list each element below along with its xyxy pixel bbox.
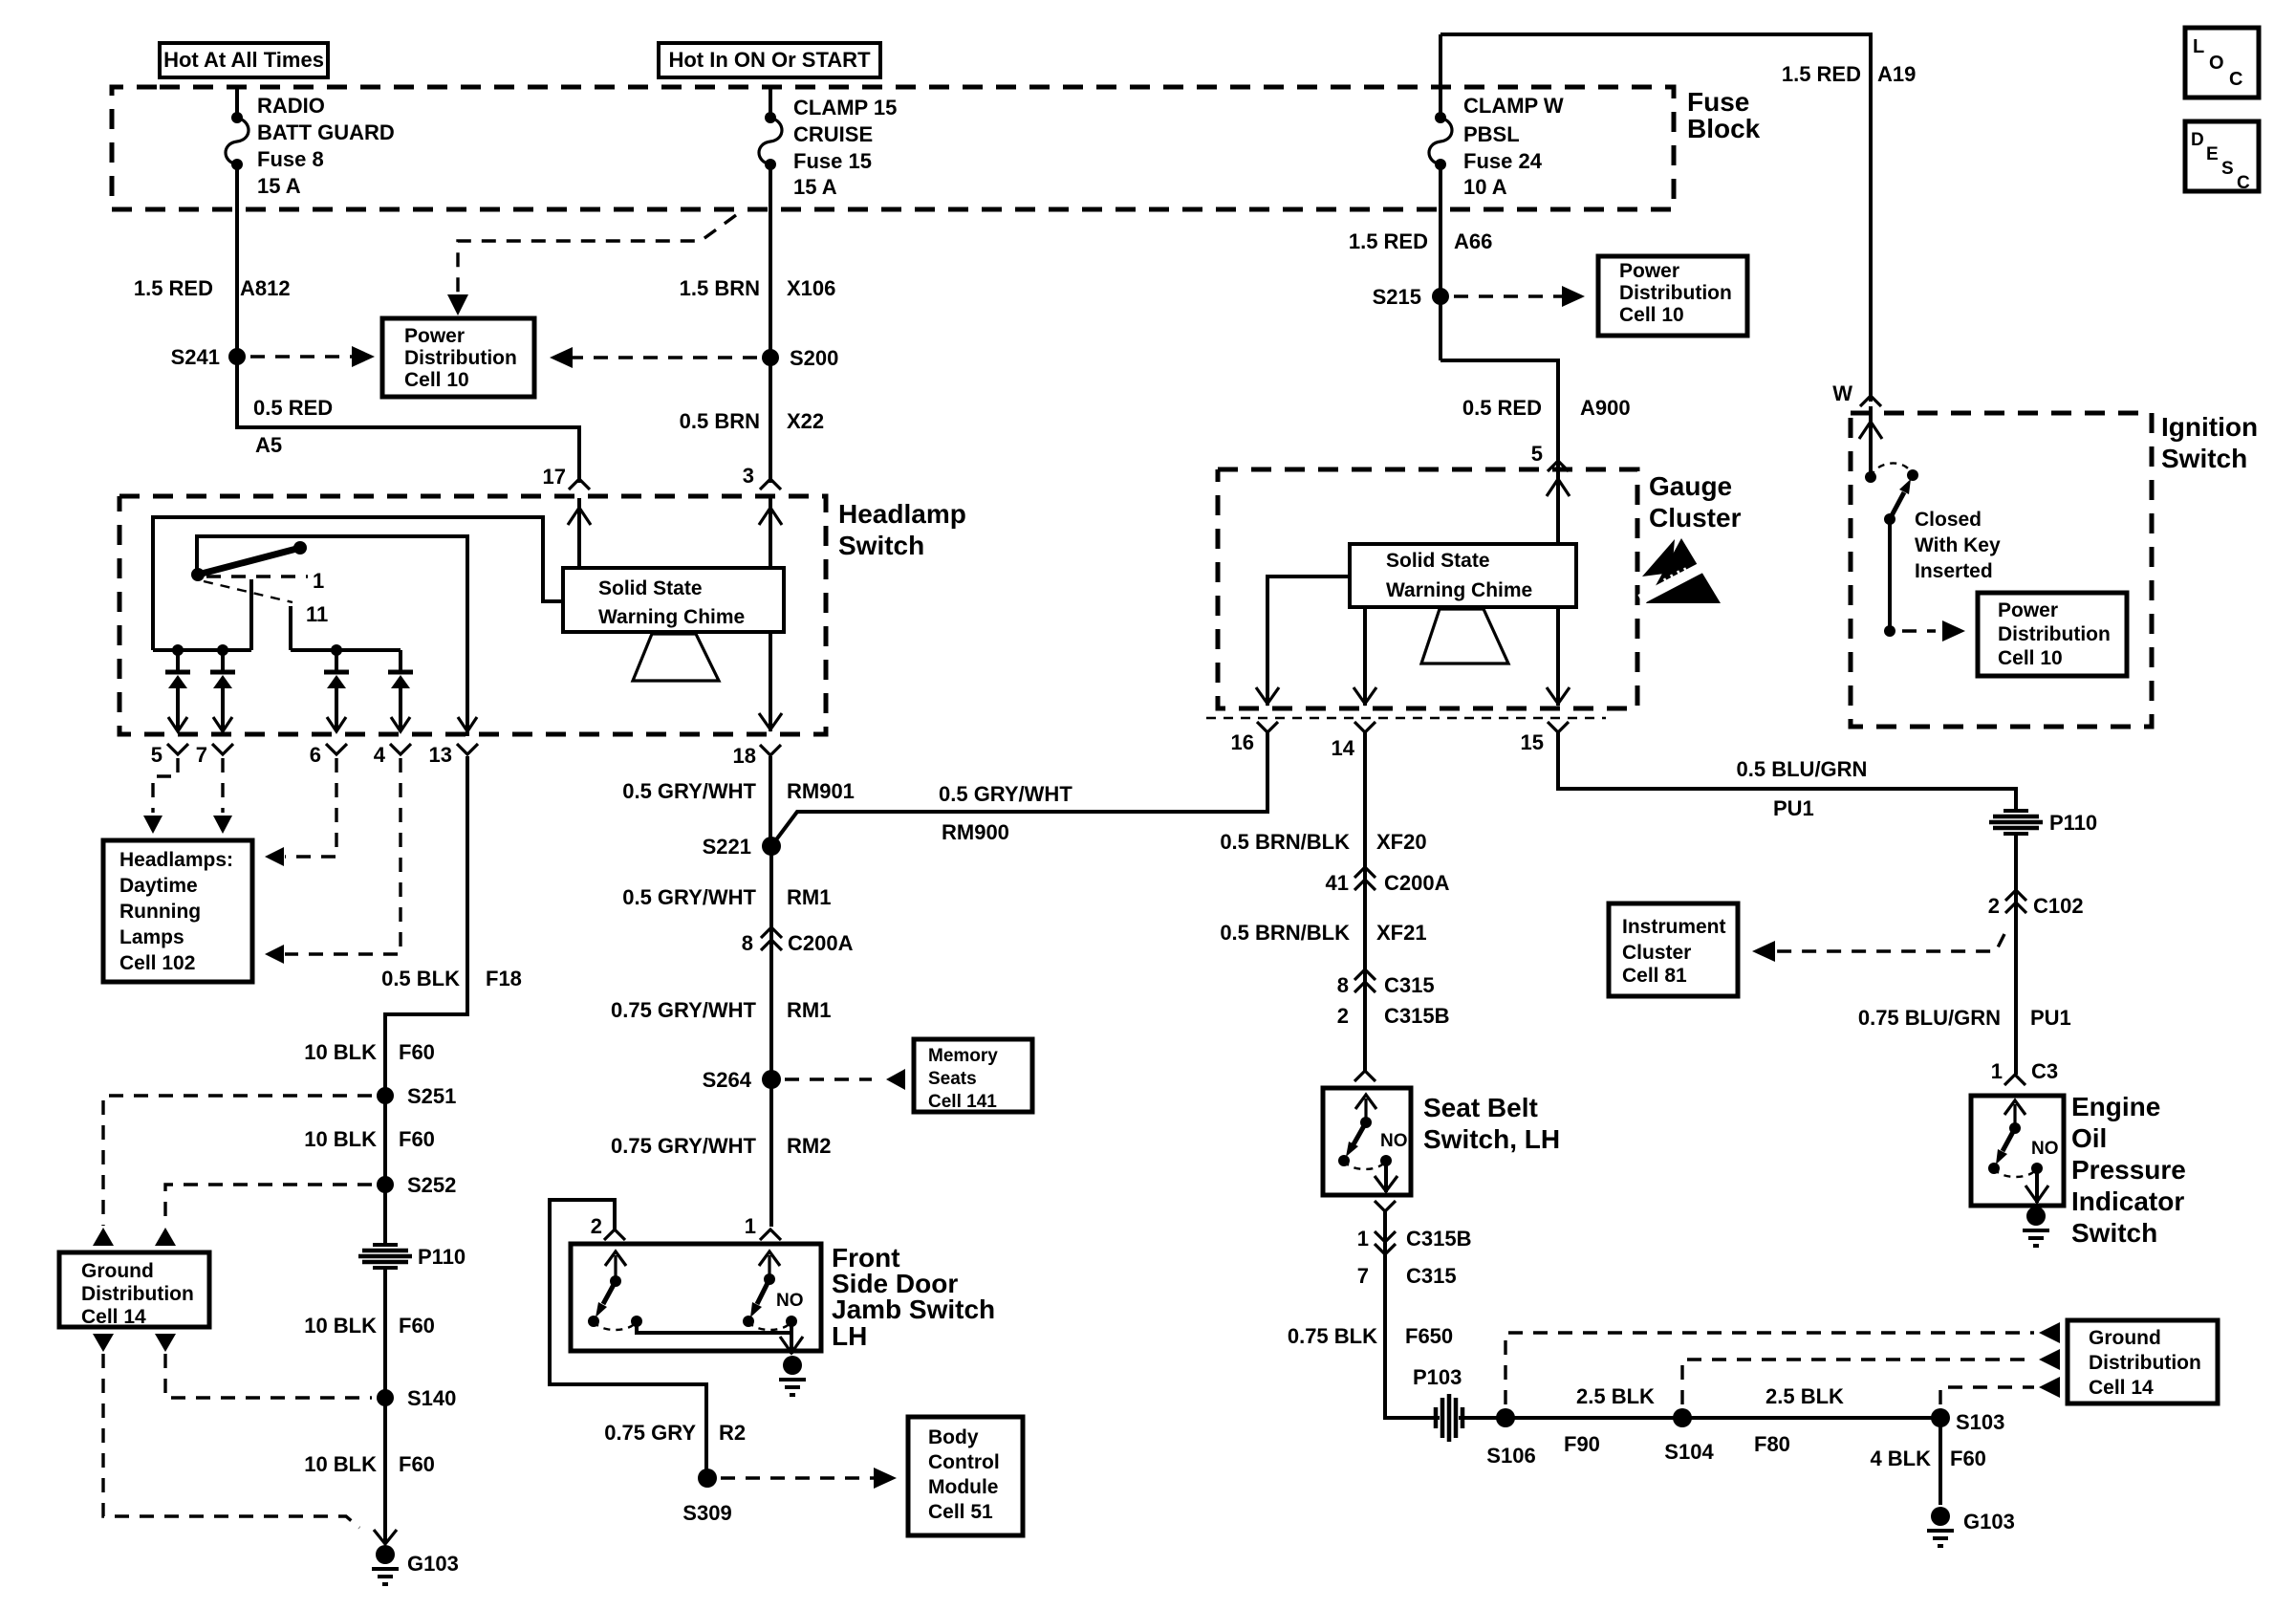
svg-text:4: 4 bbox=[374, 743, 386, 767]
diode for pin 6 bbox=[324, 650, 349, 731]
svg-text:X106: X106 bbox=[787, 276, 835, 300]
node S252 bbox=[377, 1173, 456, 1197]
svg-text:Body: Body bbox=[928, 1426, 979, 1448]
svg-text:Inserted: Inserted bbox=[1915, 560, 1993, 582]
svg-text:Block: Block bbox=[1687, 114, 1761, 143]
svg-text:2.5 BLK: 2.5 BLK bbox=[1576, 1384, 1655, 1408]
svg-text:Solid State: Solid State bbox=[1386, 550, 1490, 572]
svg-text:F60: F60 bbox=[399, 1452, 435, 1476]
svg-text:2: 2 bbox=[591, 1214, 602, 1238]
wire: chime to gauge cluster pin 16 bbox=[1256, 577, 1350, 706]
headlamp switch lever bbox=[191, 541, 307, 581]
svg-text:Cell 10: Cell 10 bbox=[404, 369, 469, 391]
svg-text:10 A: 10 A bbox=[1463, 175, 1507, 199]
svg-text:8: 8 bbox=[1337, 973, 1349, 997]
svg-text:0.75 BLK: 0.75 BLK bbox=[1288, 1324, 1377, 1348]
ignition switch contacts bbox=[1865, 463, 1918, 637]
pin 14 of gauge cluster bbox=[1332, 722, 1375, 760]
svg-text:S200: S200 bbox=[790, 346, 838, 370]
wire: 0.5 BLU/GRN PU1 from gauge cluster pin 15 to P110 bbox=[1558, 732, 2016, 820]
svg-text:O: O bbox=[2209, 53, 2224, 74]
svg-text:S106: S106 bbox=[1486, 1444, 1535, 1468]
svg-text:15 A: 15 A bbox=[793, 175, 837, 199]
svg-text:1: 1 bbox=[313, 569, 324, 593]
svg-text:2: 2 bbox=[1988, 894, 2000, 918]
wire: P103 to S106 bbox=[1459, 1416, 1505, 1420]
wire: pin 16 stub to RM900 bbox=[1266, 732, 1269, 812]
wire: 0.75 GRY R2 from loop to S309 bbox=[604, 1421, 746, 1445]
svg-text:0.5 BLU/GRN: 0.5 BLU/GRN bbox=[1737, 757, 1868, 781]
node S140 bbox=[377, 1386, 456, 1410]
svg-text:NO: NO bbox=[1380, 1131, 1408, 1151]
wire: switch common bus to chime input bbox=[153, 517, 563, 650]
svg-text:Control: Control bbox=[928, 1451, 1000, 1473]
reference dashed: Ground Distribution to S140 (down arrow below box) bbox=[155, 1334, 372, 1398]
svg-text:Switch: Switch bbox=[2071, 1218, 2157, 1248]
svg-text:Cell 81: Cell 81 bbox=[1622, 965, 1687, 987]
svg-text:0.5 GRY/WHT: 0.5 GRY/WHT bbox=[622, 885, 756, 909]
svg-text:LH: LH bbox=[832, 1321, 867, 1351]
reference dashed: pin 6 to Headlamps DRL (left arrow) bbox=[265, 758, 336, 866]
svg-text:RADIO: RADIO bbox=[257, 94, 325, 118]
svg-text:Lamps: Lamps bbox=[119, 926, 184, 948]
module box: Headlamps Daytime Running Lamps Cell 102 bbox=[103, 840, 252, 982]
ground G103 (left) bbox=[372, 1530, 459, 1584]
header box: Hot At All Times bbox=[160, 43, 328, 77]
wire: W into ignition switch (up arrow) bbox=[1859, 406, 1882, 477]
header box: Hot In ON Or START bbox=[659, 43, 880, 77]
node S200 bbox=[762, 346, 838, 370]
fuse F24 (CLAMP W PBSL Fuse 24 10A) bbox=[1429, 94, 1564, 199]
svg-text:1: 1 bbox=[1357, 1227, 1369, 1251]
svg-text:Jamb Switch: Jamb Switch bbox=[832, 1295, 995, 1324]
svg-text:E: E bbox=[2206, 144, 2219, 164]
svg-text:G103: G103 bbox=[407, 1552, 459, 1576]
svg-text:Cell 10: Cell 10 bbox=[1619, 304, 1684, 326]
reference dashed: pin 4 to Headlamps DRL (left arrow) bbox=[265, 758, 401, 964]
connector C102 pin 2 bbox=[1988, 890, 2084, 918]
gauge cluster dashed box bbox=[1218, 469, 1637, 708]
svg-text:A5: A5 bbox=[255, 433, 282, 457]
fuse F8 (RADIO BATT GUARD Fuse 8 15A) bbox=[226, 94, 395, 198]
svg-text:7: 7 bbox=[1357, 1264, 1369, 1288]
module box: Power Distribution Cell 10 (upper right) bbox=[1598, 256, 1747, 336]
label: Gauge Cluster bbox=[1649, 471, 1742, 533]
svg-text:17: 17 bbox=[543, 465, 566, 489]
wire: 1.5 RED A812 from fuse 8 to S241 bbox=[134, 164, 291, 421]
svg-text:2: 2 bbox=[1337, 1004, 1349, 1028]
svg-text:BATT GUARD: BATT GUARD bbox=[257, 120, 395, 144]
connector C315B pin 1 / C315 pin 7 bbox=[1357, 1227, 1472, 1288]
wire: P110 to C102 bbox=[2014, 832, 2018, 903]
svg-text:Warning Chime: Warning Chime bbox=[598, 606, 745, 628]
node S103 bbox=[1931, 1408, 2004, 1434]
contact 11 dashed position bbox=[204, 581, 328, 626]
svg-text:Warning Chime: Warning Chime bbox=[1386, 579, 1532, 601]
DESC legend box bbox=[2185, 121, 2259, 193]
wire: S252 to P110 bbox=[383, 1185, 387, 1247]
wire: chime output to pin 18 (down arrow) bbox=[759, 632, 782, 731]
svg-text:C315B: C315B bbox=[1406, 1227, 1471, 1251]
svg-text:S309: S309 bbox=[682, 1501, 731, 1525]
pin 4 label and connector bbox=[374, 743, 411, 767]
connector pass-through P110 (floor pan grommet, left) bbox=[358, 1245, 466, 1269]
wire: 0.5 GRY/WHT RM900 branch from S221 to gauge cluster pin 16 bbox=[771, 730, 1267, 846]
svg-text:15: 15 bbox=[1521, 730, 1544, 754]
reference dashed arrow S241 to Power Distribution bbox=[250, 346, 375, 367]
svg-text:Distribution: Distribution bbox=[404, 347, 517, 369]
pin 2 of door jamb switch bbox=[591, 1214, 625, 1240]
svg-text:Power: Power bbox=[1619, 260, 1679, 282]
node S264 bbox=[703, 1068, 781, 1092]
svg-text:0.75 GRY: 0.75 GRY bbox=[604, 1421, 696, 1445]
wire: 10 BLK F60 from S251 to S252 bbox=[304, 1096, 435, 1185]
svg-text:10 BLK: 10 BLK bbox=[304, 1040, 377, 1064]
fuse block dashed boundary band bbox=[112, 87, 1674, 209]
svg-text:Hot In ON Or START: Hot In ON Or START bbox=[668, 48, 871, 72]
svg-text:1.5 RED: 1.5 RED bbox=[1782, 62, 1861, 86]
wire: right diode bus bbox=[291, 644, 401, 656]
reference dashed arrow S309 to Body Control Module bbox=[721, 1468, 897, 1489]
module box: Power Distribution Cell 10 (ignition switch) bbox=[1978, 593, 2127, 676]
svg-text:Switch: Switch bbox=[838, 531, 924, 560]
wire label: 10 BLK F60 (above S251) bbox=[304, 1040, 435, 1064]
svg-text:C: C bbox=[2229, 69, 2242, 90]
svg-text:8: 8 bbox=[742, 931, 753, 955]
node S106 bbox=[1486, 1408, 1535, 1468]
wire: 10 BLK F60 from S140 to G103 bbox=[304, 1398, 435, 1542]
svg-text:Indicator: Indicator bbox=[2071, 1186, 2184, 1216]
svg-text:Cluster: Cluster bbox=[1622, 942, 1691, 964]
svg-text:0.5 RED: 0.5 RED bbox=[253, 396, 333, 420]
wire: left diode bus bbox=[153, 644, 251, 656]
svg-text:CRUISE: CRUISE bbox=[793, 122, 873, 146]
wire: seat belt switch output bbox=[1375, 1161, 1397, 1211]
svg-text:X22: X22 bbox=[787, 409, 824, 433]
reference dashed: S252 to Ground Distribution (up arrow into box) bbox=[155, 1185, 372, 1246]
svg-text:Fuse: Fuse bbox=[1687, 87, 1749, 117]
diode for pin 4 bbox=[388, 650, 413, 731]
wire: pin 3 feed to warning chime (up arrow) bbox=[759, 498, 782, 568]
connector C315 pin 8 / C315B pin 2 bbox=[1337, 969, 1450, 1028]
wire: 1.5 RED A66 from fuse 24 to S215 bbox=[1349, 164, 1493, 360]
wire: 0.5 BRN/BLK XF21 from C200A to C315 bbox=[1220, 881, 1426, 983]
svg-text:4 BLK: 4 BLK bbox=[1870, 1447, 1931, 1470]
pin 16 of gauge cluster bbox=[1231, 722, 1278, 754]
svg-text:S251: S251 bbox=[407, 1084, 456, 1108]
component box: Engine Oil Pressure Indicator Switch bbox=[1971, 1092, 2186, 1248]
svg-text:1.5 BRN: 1.5 BRN bbox=[680, 276, 760, 300]
svg-text:16: 16 bbox=[1231, 730, 1254, 754]
svg-text:Distribution: Distribution bbox=[2089, 1352, 2201, 1374]
ESD sensitivity symbol bbox=[1640, 538, 1721, 603]
reference dashed arrow S215 to Power Distribution bbox=[1454, 286, 1585, 307]
svg-text:F60: F60 bbox=[399, 1314, 435, 1338]
svg-text:Cell 10: Cell 10 bbox=[1998, 647, 2063, 669]
svg-text:1.5 RED: 1.5 RED bbox=[134, 276, 213, 300]
svg-text:CLAMP W: CLAMP W bbox=[1463, 94, 1564, 118]
svg-text:C3: C3 bbox=[2031, 1059, 2058, 1083]
node S251 bbox=[377, 1084, 456, 1108]
svg-text:XF20: XF20 bbox=[1376, 830, 1427, 854]
svg-text:C: C bbox=[2237, 173, 2250, 193]
svg-text:0.5 GRY/WHT: 0.5 GRY/WHT bbox=[622, 779, 756, 803]
svg-text:0.75 GRY/WHT: 0.75 GRY/WHT bbox=[611, 998, 757, 1022]
svg-text:0.5 BRN/BLK: 0.5 BRN/BLK bbox=[1220, 830, 1350, 854]
svg-text:1: 1 bbox=[745, 1214, 756, 1238]
svg-text:13: 13 bbox=[429, 743, 452, 767]
ground: door jamb switch case bbox=[779, 1356, 806, 1395]
wire: 0.75 GRY/WHT RM1 from C200A to S264 bbox=[611, 941, 831, 1079]
svg-text:RM2: RM2 bbox=[787, 1134, 831, 1158]
svg-text:P110: P110 bbox=[2049, 811, 2097, 835]
svg-text:Fuse 8: Fuse 8 bbox=[257, 147, 324, 171]
component box: Front Side Door Jamb Switch LH bbox=[571, 1243, 995, 1351]
reference dashed arrow ignition contact to Power Distribution bbox=[1902, 620, 1965, 642]
svg-text:PU1: PU1 bbox=[2030, 1006, 2071, 1030]
svg-text:Distribution: Distribution bbox=[1619, 282, 1732, 304]
wire: gauge cluster pin 5 into warning chime (up arrow) bbox=[1547, 465, 1570, 544]
svg-text:With Key: With Key bbox=[1915, 534, 2001, 556]
wire: pin 17 feed to warning chime (up arrow) bbox=[568, 498, 591, 568]
svg-text:NO: NO bbox=[2031, 1139, 2059, 1159]
svg-text:0.5 RED: 0.5 RED bbox=[1462, 396, 1542, 420]
wire: contact 11 to diode bus right bbox=[289, 606, 292, 650]
wire: 0.75 BLK F650 from seat belt switch to splice bus bbox=[1288, 1211, 1453, 1418]
svg-text:F60: F60 bbox=[399, 1127, 435, 1151]
svg-text:R2: R2 bbox=[719, 1421, 746, 1445]
wire: jamb switch NO contacts junction bbox=[637, 1321, 791, 1333]
wire: chime to gauge cluster pin 14 bbox=[1354, 607, 1376, 706]
pin 6 label and connector bbox=[310, 743, 347, 767]
wire: 1.5 RED A19 to ignition switch W bbox=[1440, 34, 1916, 402]
svg-text:C315B: C315B bbox=[1384, 1004, 1449, 1028]
node S309 bbox=[682, 1469, 731, 1525]
node S104 bbox=[1664, 1408, 1714, 1464]
svg-text:W: W bbox=[1832, 381, 1852, 405]
svg-text:A900: A900 bbox=[1580, 396, 1631, 420]
module box: Power Distribution Cell 10 (left) bbox=[382, 318, 534, 397]
svg-text:Closed: Closed bbox=[1915, 509, 1982, 531]
pin 13 label and connector bbox=[429, 743, 478, 767]
svg-text:A19: A19 bbox=[1877, 62, 1916, 86]
svg-text:Cluster: Cluster bbox=[1649, 503, 1742, 533]
svg-text:Hot At All Times: Hot At All Times bbox=[163, 48, 324, 72]
svg-text:RM1: RM1 bbox=[787, 998, 831, 1022]
svg-text:G103: G103 bbox=[1963, 1510, 2015, 1534]
reference dashed arrow from Hot-In-ON band down to Power Distribution bbox=[447, 215, 736, 315]
wire: 0.5 BLK F18 from pin 13 down with jog bbox=[381, 756, 522, 1096]
svg-text:Headlamps:: Headlamps: bbox=[119, 849, 233, 871]
svg-text:Cell 141: Cell 141 bbox=[928, 1092, 997, 1112]
reference dashed: Ground Distribution to G103 (down arrow below box) bbox=[93, 1334, 359, 1528]
svg-text:S215: S215 bbox=[1373, 285, 1421, 309]
svg-text:Running: Running bbox=[119, 901, 201, 923]
speaker symbol of warning chime (right) bbox=[1421, 609, 1508, 664]
reference dashed: S104 to Ground Distribution right bbox=[1682, 1349, 2060, 1404]
svg-text:PBSL: PBSL bbox=[1463, 122, 1520, 146]
svg-text:F60: F60 bbox=[1950, 1447, 1986, 1470]
svg-text:Instrument: Instrument bbox=[1622, 916, 1726, 938]
wire: pin 13 exit arrow bbox=[458, 717, 477, 731]
reference dashed: pin 5 to Headlamps DRL (down arrow) bbox=[143, 758, 178, 834]
svg-text:Ground: Ground bbox=[2089, 1327, 2161, 1349]
svg-text:Engine: Engine bbox=[2071, 1092, 2160, 1121]
svg-text:S264: S264 bbox=[703, 1068, 752, 1092]
svg-text:Oil: Oil bbox=[2071, 1123, 2107, 1153]
wire: engine oil switch to case ground bbox=[2025, 1168, 2048, 1203]
wire: 0.5 RED A5 from S241 to headlamp switch pin 17 bbox=[237, 396, 579, 483]
ground G103 (right) bbox=[1927, 1507, 2015, 1546]
connector pass-through P103 bbox=[1413, 1365, 1462, 1442]
svg-text:RM900: RM900 bbox=[942, 820, 1009, 844]
wire: 4 BLK F60 from S103 to G103 bbox=[1870, 1418, 1985, 1505]
svg-text:Pressure: Pressure bbox=[2071, 1155, 2186, 1185]
svg-text:10 BLK: 10 BLK bbox=[304, 1452, 377, 1476]
wire: jamb switch to case ground bbox=[780, 1321, 803, 1354]
reference dashed: S251 to Ground Distribution (up arrow into box) bbox=[93, 1096, 372, 1246]
fuse F15 (CLAMP 15 CRUISE Fuse 15 15A) bbox=[759, 96, 897, 199]
svg-text:Switch, LH: Switch, LH bbox=[1423, 1124, 1560, 1154]
svg-text:3: 3 bbox=[743, 464, 754, 488]
reference dashed arrow S264 to Memory Seats bbox=[785, 1069, 905, 1090]
module box: Instrument Cluster Cell 81 bbox=[1609, 903, 1738, 996]
door jamb switch left pole bbox=[588, 1251, 642, 1330]
svg-text:7: 7 bbox=[196, 743, 207, 767]
svg-text:0.5 GRY/WHT: 0.5 GRY/WHT bbox=[939, 782, 1072, 806]
svg-text:PU1: PU1 bbox=[1773, 796, 1814, 820]
ground: engine oil pressure switch case bbox=[2023, 1207, 2049, 1246]
wire: battery feed into fuse 8 bbox=[235, 87, 239, 118]
label: Headlamp Switch bbox=[838, 499, 966, 560]
seat belt switch pole (NO) bbox=[1338, 1095, 1408, 1169]
svg-text:F18: F18 bbox=[486, 967, 522, 990]
wire: fuse block feed to fuse 24 from top line bbox=[1439, 34, 1442, 118]
label: Ignition Switch bbox=[2161, 412, 2258, 473]
module box: Memory Seats Cell 141 bbox=[914, 1039, 1032, 1112]
svg-text:Power: Power bbox=[404, 325, 465, 347]
door jamb switch right pole (NO) bbox=[743, 1251, 804, 1330]
svg-text:C200A: C200A bbox=[788, 931, 854, 955]
svg-text:C315: C315 bbox=[1406, 1264, 1457, 1288]
svg-text:18: 18 bbox=[733, 744, 756, 768]
svg-text:2.5 BLK: 2.5 BLK bbox=[1765, 1384, 1844, 1408]
wire: 0.5 BRN/BLK XF20 from pin 14 to C200A bbox=[1220, 732, 1426, 881]
LOC legend box bbox=[2185, 28, 2259, 98]
svg-text:Module: Module bbox=[928, 1476, 999, 1498]
svg-text:Gauge: Gauge bbox=[1649, 471, 1732, 501]
svg-text:14: 14 bbox=[1332, 736, 1355, 760]
wire: door jamb switch pin 2 loop to S309 bbox=[550, 1200, 706, 1478]
svg-text:6: 6 bbox=[310, 743, 321, 767]
connector pass-through P110 (dash grommet, right) bbox=[1989, 811, 2097, 835]
pin 15 of gauge cluster bbox=[1521, 722, 1569, 754]
svg-text:Fuse 15: Fuse 15 bbox=[793, 149, 872, 173]
svg-text:0.75 GRY/WHT: 0.75 GRY/WHT bbox=[611, 1134, 757, 1158]
reference dashed: pin 7 to Headlamps DRL (down arrow) bbox=[213, 758, 232, 834]
svg-text:Daytime: Daytime bbox=[119, 875, 198, 897]
svg-text:Cell 102: Cell 102 bbox=[119, 952, 195, 974]
svg-text:Power: Power bbox=[1998, 599, 2058, 621]
wire: 0.5 GRY/WHT RM901 from pin 18 to S221 bbox=[622, 756, 855, 846]
pin 5 label and connector bbox=[151, 743, 188, 767]
reference dashed: S103 to Ground Distribution right bbox=[1940, 1377, 2060, 1404]
svg-text:Seats: Seats bbox=[928, 1069, 977, 1089]
svg-text:15 A: 15 A bbox=[257, 174, 301, 198]
svg-text:0.5 BLK: 0.5 BLK bbox=[381, 967, 460, 990]
wire: 1.5 BRN X106 from fuse 15 to S200 bbox=[680, 164, 836, 483]
svg-text:Fuse 24: Fuse 24 bbox=[1463, 149, 1543, 173]
svg-text:XF21: XF21 bbox=[1376, 921, 1427, 945]
svg-text:NO: NO bbox=[776, 1291, 804, 1311]
label: Fuse Block bbox=[1687, 87, 1761, 143]
svg-text:A812: A812 bbox=[240, 276, 291, 300]
svg-text:Distribution: Distribution bbox=[1998, 623, 2111, 645]
component box: Seat Belt Switch LH bbox=[1323, 1088, 1560, 1195]
wire: 2.5 BLK F90 from S106 to S104 bbox=[1505, 1384, 1682, 1456]
wire label: 0.5 BRN X22 bbox=[680, 409, 825, 433]
wire: 0.5 RED A900 from S215 to gauge cluster pin 5 bbox=[1440, 360, 1631, 465]
svg-text:RM1: RM1 bbox=[787, 885, 831, 909]
module box: Ground Distribution Cell 14 (left) bbox=[59, 1252, 209, 1328]
svg-text:S104: S104 bbox=[1664, 1440, 1714, 1464]
contact 1 dashed position bbox=[206, 569, 324, 593]
connector C3 pin 1 bbox=[1991, 1059, 2058, 1085]
label: Closed With Key Inserted bbox=[1915, 509, 2001, 582]
svg-text:F650: F650 bbox=[1405, 1324, 1453, 1348]
svg-text:0.5 BRN: 0.5 BRN bbox=[680, 409, 760, 433]
pin 5 of gauge cluster bbox=[1531, 442, 1569, 471]
svg-text:Ground: Ground bbox=[81, 1260, 154, 1282]
svg-text:41: 41 bbox=[1326, 871, 1349, 895]
connector C200A pin 41 bbox=[1326, 867, 1450, 895]
node S215 bbox=[1373, 285, 1449, 309]
connector C200A pin 8 bbox=[742, 927, 854, 955]
svg-text:Switch: Switch bbox=[2161, 444, 2247, 473]
pin W of ignition switch bbox=[1832, 381, 1881, 406]
svg-text:Ignition: Ignition bbox=[2161, 412, 2258, 442]
pin 7 label and connector bbox=[196, 743, 233, 767]
wire: 0.75 BLU/GRN PU1 from C102 to C3 bbox=[1858, 903, 2071, 1075]
svg-text:F60: F60 bbox=[399, 1040, 435, 1064]
wire: from C315B to seat belt switch bbox=[1354, 983, 1375, 1081]
svg-text:A66: A66 bbox=[1454, 229, 1492, 253]
connector C200 boundary dashed line under gauge cluster bbox=[1206, 717, 1606, 720]
node S241 bbox=[171, 345, 246, 369]
svg-text:P103: P103 bbox=[1413, 1365, 1462, 1389]
svg-text:P110: P110 bbox=[418, 1245, 466, 1269]
svg-text:10 BLK: 10 BLK bbox=[304, 1314, 377, 1338]
svg-text:S: S bbox=[2221, 159, 2234, 179]
ignition switch dashed box bbox=[1851, 413, 2152, 727]
pin 3 of headlamp switch bbox=[743, 464, 781, 490]
engine oil pressure switch pole (NO) bbox=[1988, 1100, 2059, 1177]
wire: 2.5 BLK F80 from S104 to S103 bbox=[1682, 1384, 1940, 1456]
svg-text:S252: S252 bbox=[407, 1173, 456, 1197]
svg-text:C102: C102 bbox=[2033, 894, 2084, 918]
reference dashed arrow S200 to Power Distribution bbox=[550, 347, 757, 368]
wire: 10 BLK F60 from P110 to S140 bbox=[304, 1266, 435, 1398]
wire: 0.75 GRY/WHT RM2 from S264 to door jamb switch pin 1 bbox=[611, 1079, 831, 1227]
pin 18 label and connector bbox=[733, 744, 781, 768]
svg-text:C200A: C200A bbox=[1384, 871, 1450, 895]
wire: ignition feed into fuse 15 bbox=[769, 87, 772, 118]
diode for pin 7 bbox=[210, 650, 235, 731]
node S221 bbox=[703, 835, 781, 859]
svg-text:0.75 BLU/GRN: 0.75 BLU/GRN bbox=[1858, 1006, 2001, 1030]
svg-text:1: 1 bbox=[1991, 1059, 2003, 1083]
pin 1 of door jamb switch bbox=[745, 1214, 781, 1240]
